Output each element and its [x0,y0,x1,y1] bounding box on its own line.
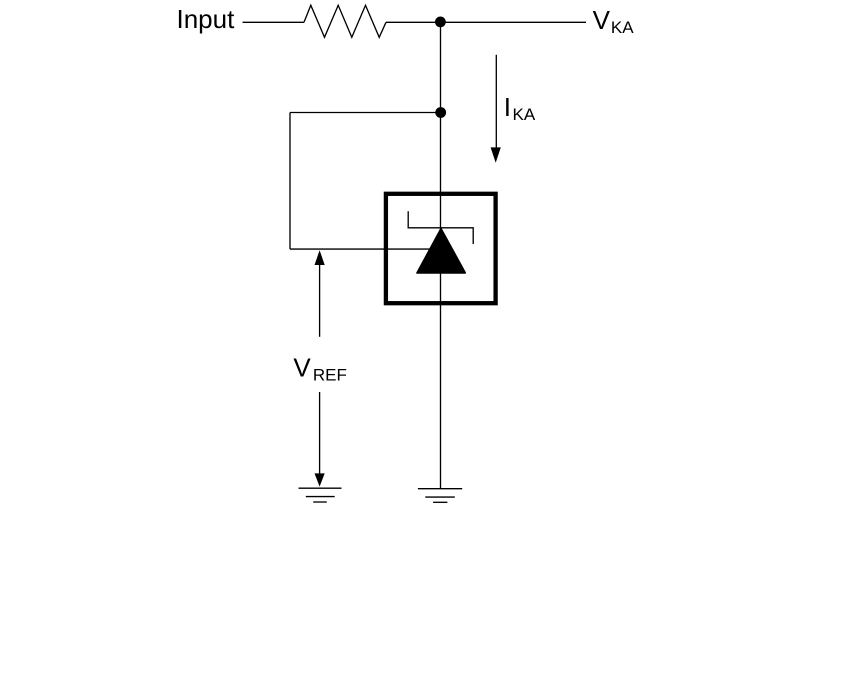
svg-text:KA: KA [513,105,536,124]
current arrow IKA [491,55,501,163]
svg-text:V: V [293,352,311,382]
wire feedback top [290,112,441,114]
svg-text:Input: Input [177,4,236,34]
wire reference input [290,248,430,250]
svg-text:I: I [504,92,511,122]
svg-text:KA: KA [611,18,634,37]
node cathode junction [435,17,446,28]
wire cathode vertical [440,22,442,489]
svg-text:V: V [593,5,611,35]
ground anode [418,489,462,503]
label IKA [504,92,536,124]
ground VREF [299,488,342,502]
svg-text:REF: REF [313,365,347,384]
regulator reference step line [408,211,473,244]
arrow VREF upper [315,250,325,337]
regulator triangle [417,229,465,273]
node reference tap junction [435,107,446,118]
arrow VREF lower [315,392,325,487]
wire feedback left vertical [289,113,291,250]
resistor [304,5,386,37]
label VKA [593,5,635,37]
label VREF [293,352,347,384]
shunt regulator box [386,194,496,303]
wire Input to resistor [243,21,305,23]
wire resistor to VKA terminal [386,21,586,23]
